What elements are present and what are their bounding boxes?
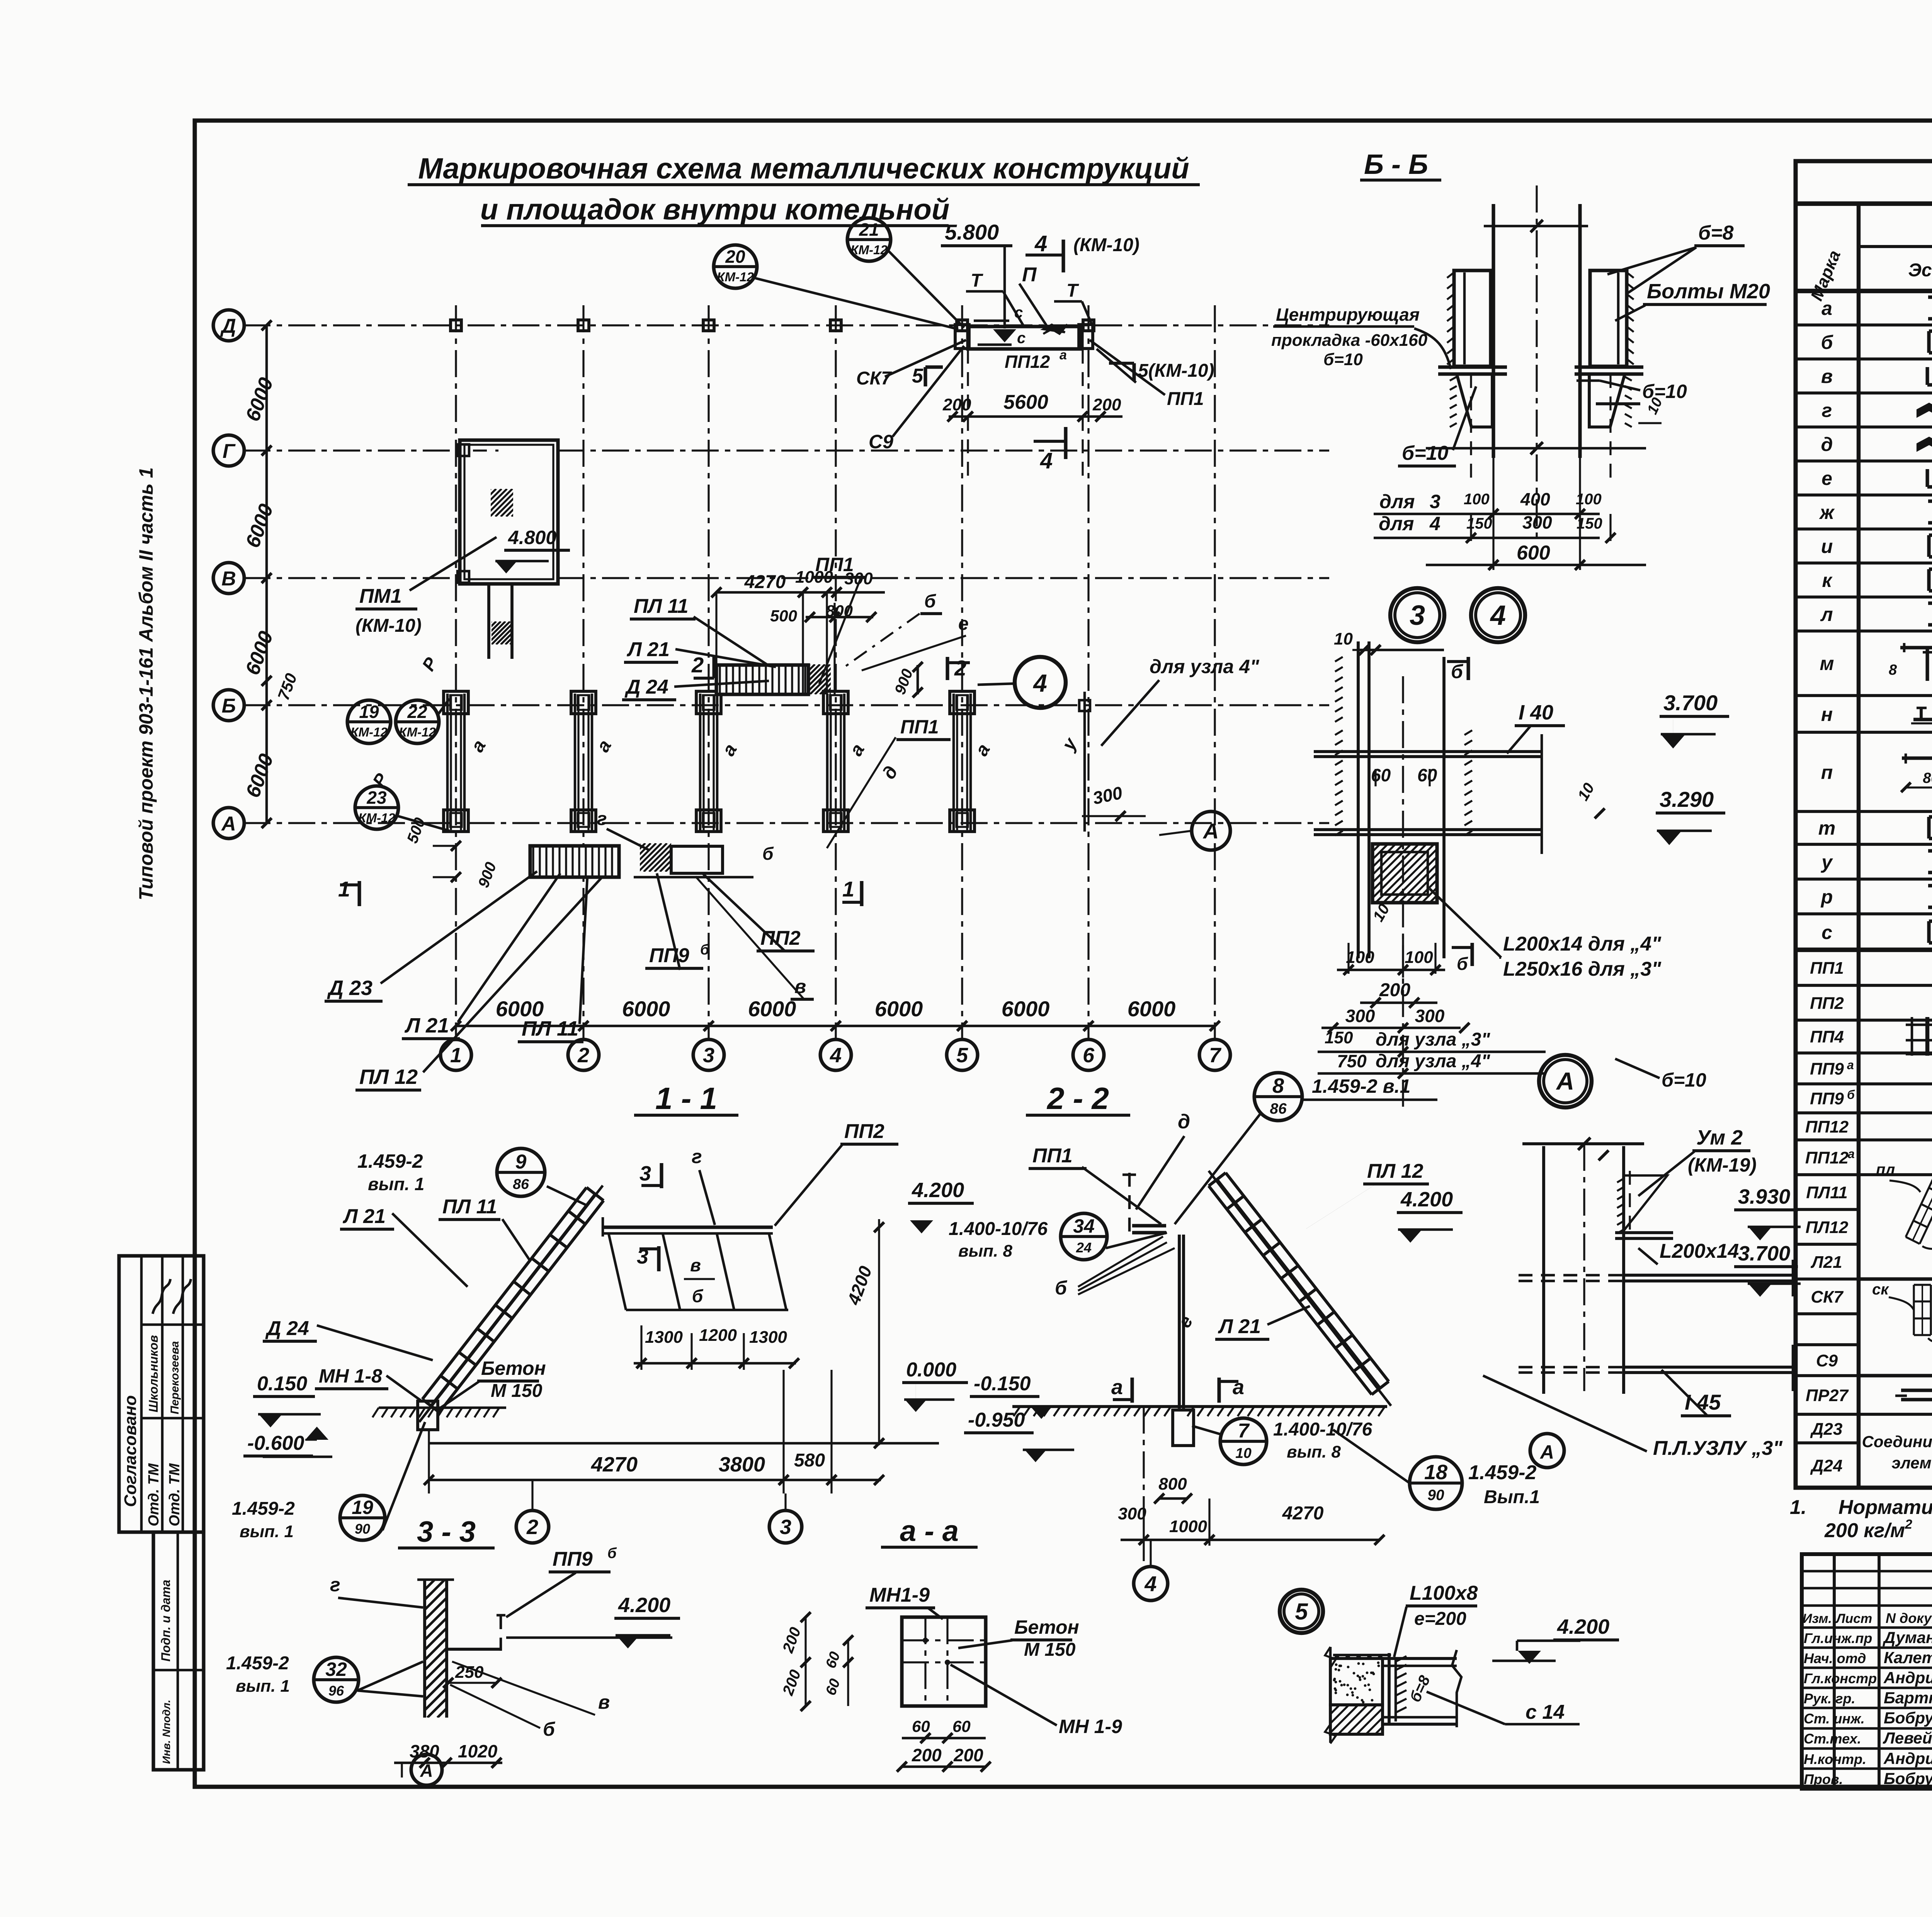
svg-text:г: г [330, 1574, 340, 1596]
svg-text:б: б [1821, 332, 1834, 353]
svg-text:ПП9: ПП9 [1810, 1089, 1844, 1108]
svg-text:3800: 3800 [719, 1453, 765, 1476]
svg-text:А: А [1556, 1067, 1574, 1095]
svg-text:2: 2 [1905, 1517, 1912, 1532]
svg-text:Бетон: Бетон [481, 1357, 546, 1379]
svg-text:3.930: 3.930 [1738, 1185, 1790, 1208]
svg-text:34: 34 [1073, 1215, 1095, 1237]
svg-text:3: 3 [639, 1162, 651, 1185]
svg-text:4: 4 [1429, 513, 1440, 534]
svg-text:300: 300 [1345, 1006, 1375, 1026]
svg-text:(КМ-10): (КМ-10) [1073, 235, 1139, 255]
svg-text:Калетов: Калетов [1884, 1648, 1932, 1667]
svg-text:ПР27: ПР27 [1806, 1386, 1849, 1405]
svg-text:Д: Д [220, 315, 236, 337]
svg-text:Вып.1: Вып.1 [1484, 1487, 1540, 1507]
svg-text:б: б [543, 1718, 556, 1740]
svg-text:1.400-10/76: 1.400-10/76 [949, 1219, 1048, 1239]
svg-text:90: 90 [355, 1521, 370, 1537]
svg-text:60: 60 [1417, 765, 1437, 785]
svg-text:р: р [1820, 886, 1833, 908]
svg-text:22: 22 [407, 702, 427, 722]
svg-text:п: п [1821, 762, 1833, 783]
svg-text:Т: Т [1066, 281, 1079, 301]
svg-text:в: в [1821, 366, 1833, 387]
svg-text:а: а [1111, 1376, 1123, 1399]
svg-text:вып. 1: вып. 1 [236, 1677, 290, 1696]
svg-text:3: 3 [703, 1044, 714, 1067]
svg-text:и: и [1821, 536, 1833, 557]
svg-text:ПЛ 11: ПЛ 11 [442, 1196, 497, 1218]
svg-text:Л 21: Л 21 [626, 638, 670, 661]
svg-text:1020: 1020 [458, 1741, 498, 1761]
svg-text:б=10: б=10 [1323, 350, 1363, 369]
svg-text:Отд. ТМ: Отд. ТМ [146, 1463, 162, 1526]
svg-text:23: 23 [366, 788, 387, 808]
svg-text:90: 90 [1427, 1487, 1444, 1504]
svg-text:Думан: Думан [1883, 1628, 1932, 1647]
svg-text:5600: 5600 [1003, 391, 1048, 413]
svg-text:б: б [1847, 1088, 1855, 1102]
svg-text:с: с [1014, 304, 1023, 321]
svg-text:3.700: 3.700 [1663, 691, 1718, 715]
svg-text:ПЛ11: ПЛ11 [1806, 1183, 1848, 1202]
svg-text:4270: 4270 [591, 1453, 638, 1476]
svg-text:4.200: 4.200 [618, 1594, 670, 1617]
svg-text:1000: 1000 [1169, 1517, 1207, 1536]
svg-text:Болты М20: Болты М20 [1647, 280, 1770, 303]
svg-text:Д23: Д23 [1810, 1420, 1843, 1439]
svg-text:ПП12: ПП12 [1805, 1148, 1849, 1167]
svg-text:в: в [690, 1255, 701, 1275]
svg-text:В: В [221, 568, 236, 590]
svg-text:3.700: 3.700 [1738, 1242, 1790, 1265]
svg-text:вып. 8: вып. 8 [1287, 1442, 1341, 1461]
svg-text:ПП12: ПП12 [1005, 352, 1050, 372]
svg-text:б: б [924, 591, 936, 612]
svg-text:1.459-2: 1.459-2 [232, 1499, 295, 1519]
svg-text:т: т [1818, 817, 1835, 839]
svg-text:3: 3 [780, 1516, 791, 1539]
svg-text:1200: 1200 [699, 1326, 737, 1345]
svg-text:Левейка: Левейка [1883, 1729, 1932, 1747]
svg-text:8: 8 [1272, 1074, 1284, 1097]
svg-text:Д 24: Д 24 [624, 676, 668, 698]
svg-text:8: 8 [1889, 662, 1897, 678]
svg-text:300: 300 [1415, 1006, 1445, 1026]
svg-text:300: 300 [1118, 1504, 1146, 1523]
svg-text:ПП1: ПП1 [1167, 389, 1204, 409]
svg-text:1300: 1300 [645, 1328, 683, 1347]
svg-text:Пров.: Пров. [1804, 1771, 1843, 1787]
svg-text:а: а [1847, 1058, 1854, 1072]
svg-text:L100х8: L100х8 [1410, 1582, 1478, 1604]
svg-text:Барткевич: Барткевич [1884, 1689, 1932, 1707]
svg-text:200: 200 [912, 1745, 942, 1765]
svg-text:ПЛ 12: ПЛ 12 [359, 1065, 418, 1089]
svg-text:у: у [1820, 851, 1833, 873]
svg-text:с: с [1017, 330, 1026, 347]
svg-text:Перекозеева: Перекозеева [168, 1341, 181, 1415]
svg-text:Эскиз: Эскиз [1908, 260, 1932, 281]
svg-text:100: 100 [1346, 948, 1374, 967]
svg-text:3.290: 3.290 [1660, 787, 1714, 811]
svg-text:4.200: 4.200 [1400, 1188, 1453, 1211]
svg-text:а - а: а - а [900, 1515, 959, 1548]
svg-text:Д24: Д24 [1810, 1456, 1843, 1475]
svg-text:60: 60 [1371, 765, 1391, 785]
svg-text:32: 32 [325, 1658, 347, 1680]
svg-text:1.459-2 в.1: 1.459-2 в.1 [1312, 1075, 1410, 1097]
svg-text:2 - 2: 2 - 2 [1046, 1081, 1109, 1116]
svg-text:С9: С9 [869, 431, 893, 452]
svg-text:200: 200 [953, 1745, 983, 1765]
svg-text:3 - 3: 3 - 3 [417, 1516, 476, 1548]
svg-text:7: 7 [1238, 1420, 1250, 1442]
svg-text:Инв. Nподл.: Инв. Nподл. [160, 1700, 172, 1764]
svg-text:5.800: 5.800 [945, 220, 999, 244]
svg-text:г: г [597, 809, 607, 829]
svg-text:24: 24 [1076, 1240, 1092, 1255]
svg-text:ПП9: ПП9 [553, 1548, 593, 1570]
svg-text:100: 100 [1464, 491, 1490, 508]
svg-text:Согласовано: Согласовано [121, 1395, 140, 1507]
svg-text:С9: С9 [1816, 1351, 1838, 1370]
svg-text:для узла „3": для узла „3" [1376, 1029, 1490, 1050]
svg-text:А: А [420, 1761, 433, 1781]
svg-text:А: А [1539, 1441, 1554, 1463]
svg-text:6000: 6000 [875, 997, 923, 1021]
svg-text:200: 200 [1379, 980, 1410, 1000]
svg-text:для узла „4": для узла „4" [1376, 1051, 1490, 1072]
svg-text:800: 800 [1923, 770, 1932, 786]
svg-text:1300: 1300 [749, 1328, 787, 1347]
svg-text:ПМ1: ПМ1 [359, 585, 402, 607]
svg-text:86: 86 [513, 1176, 529, 1192]
svg-text:б: б [607, 1545, 617, 1561]
svg-text:5: 5 [912, 365, 923, 387]
svg-text:300: 300 [1522, 512, 1552, 532]
svg-text:а: а [1821, 298, 1832, 319]
svg-text:Ст. инж.: Ст. инж. [1804, 1711, 1865, 1726]
svg-text:Ст.тех.: Ст.тех. [1804, 1731, 1861, 1747]
svg-text:КМ-12: КМ-12 [350, 725, 388, 740]
svg-text:2: 2 [526, 1516, 538, 1539]
svg-text:ПП1: ПП1 [900, 716, 939, 738]
svg-text:L250х16 для „3": L250х16 для „3" [1503, 958, 1662, 980]
svg-text:2: 2 [577, 1044, 589, 1067]
svg-text:Д 23: Д 23 [327, 976, 372, 1000]
svg-text:500: 500 [770, 607, 797, 625]
svg-text:0.150: 0.150 [257, 1373, 307, 1395]
svg-text:L200х14: L200х14 [1660, 1240, 1739, 1262]
svg-text:750: 750 [1337, 1051, 1367, 1071]
svg-text:400: 400 [1520, 489, 1550, 509]
svg-text:СК7: СК7 [856, 368, 892, 389]
svg-text:-0.150: -0.150 [974, 1373, 1031, 1395]
svg-text:ПП2: ПП2 [844, 1120, 884, 1143]
svg-text:(КМ-19): (КМ-19) [1688, 1154, 1757, 1176]
svg-text:4: 4 [1144, 1572, 1156, 1596]
svg-text:200 кг/м: 200 кг/м [1824, 1519, 1905, 1542]
svg-text:Соединительные: Соединительные [1862, 1432, 1932, 1451]
svg-text:4270: 4270 [744, 572, 786, 592]
svg-text:д: д [1821, 434, 1833, 455]
svg-text:КМ-12: КМ-12 [850, 243, 888, 257]
svg-text:Нормативная кратковременная: Нормативная кратковременная нагрузка на … [1838, 1496, 1932, 1519]
svg-text:Маркировочная схема металлич: Маркировочная схема металлических констр… [418, 152, 1189, 185]
svg-text:н: н [1821, 704, 1833, 725]
svg-text:Л 21: Л 21 [1218, 1315, 1261, 1338]
svg-text:вып. 1: вып. 1 [240, 1522, 294, 1541]
svg-text:1 - 1: 1 - 1 [655, 1081, 717, 1116]
svg-text:600: 600 [1517, 542, 1550, 564]
svg-text:150: 150 [1325, 1028, 1353, 1047]
svg-text:1: 1 [450, 1044, 462, 1067]
svg-text:6000: 6000 [622, 997, 670, 1021]
svg-text:вып. 1: вып. 1 [368, 1174, 424, 1194]
svg-text:I 40: I 40 [1519, 701, 1553, 724]
svg-text:10: 10 [1235, 1445, 1252, 1461]
svg-text:Бобрук: Бобрук [1884, 1709, 1932, 1727]
svg-text:Т: Т [971, 270, 983, 291]
svg-text:а: а [1233, 1376, 1244, 1399]
svg-text:Бетон: Бетон [1014, 1616, 1079, 1638]
svg-text:100: 100 [1405, 948, 1433, 967]
svg-text:19: 19 [359, 702, 379, 722]
svg-text:для узла 4": для узла 4" [1150, 656, 1260, 677]
svg-text:А: А [1202, 819, 1219, 843]
svg-text:580: 580 [794, 1450, 825, 1471]
svg-text:П: П [1022, 264, 1037, 286]
svg-text:ПП1: ПП1 [815, 554, 854, 575]
svg-text:КМ-12: КМ-12 [399, 725, 436, 740]
svg-text:200: 200 [1092, 395, 1121, 414]
svg-text:Рук. гр.: Рук. гр. [1804, 1691, 1855, 1706]
svg-text:б: б [700, 942, 710, 958]
svg-text:-0.600: -0.600 [247, 1432, 304, 1454]
svg-text:1.: 1. [1790, 1496, 1806, 1519]
svg-text:800: 800 [1158, 1475, 1187, 1493]
svg-text:L200х14 для „4": L200х14 для „4" [1503, 933, 1662, 955]
svg-text:2: 2 [691, 653, 704, 677]
svg-text:ПП9: ПП9 [649, 944, 689, 967]
svg-text:б: б [1451, 661, 1464, 682]
svg-text:б: б [1457, 954, 1468, 974]
svg-text:А: А [221, 813, 236, 835]
svg-text:МН 1-8: МН 1-8 [319, 1365, 382, 1387]
svg-text:Изм.: Изм. [1803, 1611, 1832, 1626]
svg-text:18: 18 [1424, 1461, 1447, 1484]
svg-text:Б: Б [222, 695, 236, 717]
svg-text:б=10: б=10 [1662, 1069, 1706, 1091]
svg-text:1: 1 [338, 877, 350, 901]
svg-text:ПП9: ПП9 [1810, 1060, 1844, 1078]
svg-text:с: с [1821, 922, 1832, 943]
svg-text:6: 6 [1083, 1044, 1095, 1067]
svg-text:e=200: e=200 [1414, 1609, 1466, 1629]
svg-text:4: 4 [1034, 231, 1047, 256]
svg-text:Андриевская: Андриевская [1883, 1749, 1932, 1767]
svg-text:1: 1 [842, 877, 854, 901]
svg-text:4: 4 [1032, 669, 1047, 697]
svg-text:прокладка -60х160: прокладка -60х160 [1271, 331, 1428, 350]
svg-text:ПЛ12: ПЛ12 [1806, 1218, 1849, 1237]
svg-text:е: е [958, 614, 969, 634]
svg-text:элементы: элементы [1891, 1454, 1932, 1472]
svg-text:4270: 4270 [1282, 1503, 1324, 1524]
svg-text:е: е [1821, 468, 1832, 489]
svg-text:Типовой проект 903-1-161 Альб: Типовой проект 903-1-161 Альбом II часть… [135, 467, 157, 900]
svg-text:МН1-9: МН1-9 [869, 1584, 930, 1606]
svg-text:ск: ск [1872, 1281, 1889, 1298]
svg-text:2: 2 [954, 656, 966, 680]
svg-text:КМ-12: КМ-12 [358, 811, 395, 825]
svg-text:б=10: б=10 [1402, 442, 1448, 464]
svg-text:м: м [1820, 653, 1834, 674]
svg-text:для: для [1379, 491, 1415, 512]
svg-text:4: 4 [1490, 600, 1506, 631]
svg-text:Гл.констр: Гл.констр [1804, 1670, 1877, 1686]
svg-text:Л21: Л21 [1810, 1253, 1842, 1272]
svg-text:Л 21: Л 21 [404, 1014, 449, 1037]
svg-text:Ум 2: Ум 2 [1696, 1126, 1743, 1149]
svg-text:19: 19 [352, 1497, 373, 1518]
svg-text:ж: ж [1819, 502, 1835, 523]
svg-text:20: 20 [725, 247, 745, 267]
svg-text:г: г [1822, 400, 1832, 421]
svg-text:л: л [1820, 604, 1833, 625]
svg-text:Отд. ТМ: Отд. ТМ [167, 1463, 183, 1526]
svg-text:9: 9 [515, 1151, 527, 1173]
svg-text:вып. 8: вып. 8 [958, 1242, 1012, 1260]
svg-text:к: к [1822, 570, 1833, 591]
svg-text:Б - Б: Б - Б [1364, 149, 1428, 180]
svg-text:МН 1-9: МН 1-9 [1059, 1716, 1122, 1737]
svg-text:Центрирующая: Центрирующая [1276, 304, 1420, 325]
svg-text:1.459-2: 1.459-2 [226, 1653, 289, 1674]
svg-text:6000: 6000 [1128, 997, 1176, 1021]
svg-text:б: б [1055, 1277, 1068, 1299]
svg-text:ПЛ 12: ПЛ 12 [1367, 1160, 1423, 1182]
svg-text:4: 4 [830, 1044, 842, 1067]
svg-text:3: 3 [1430, 491, 1440, 512]
svg-text:5(КМ-10): 5(КМ-10) [1138, 361, 1214, 381]
svg-text:в: в [598, 1691, 610, 1713]
svg-text:4.200: 4.200 [1557, 1615, 1609, 1638]
svg-text:Лист: Лист [1835, 1611, 1872, 1626]
svg-text:Л 21: Л 21 [342, 1205, 386, 1228]
svg-text:1.400-10/76: 1.400-10/76 [1273, 1419, 1372, 1440]
svg-text:с 14: с 14 [1526, 1701, 1565, 1723]
svg-text:ПП12: ПП12 [1805, 1118, 1849, 1136]
svg-text:3: 3 [1410, 600, 1425, 631]
svg-text:Андриевской: Андриевской [1883, 1669, 1932, 1687]
svg-text:ПП4: ПП4 [1810, 1027, 1844, 1046]
svg-text:а: а [1848, 1147, 1855, 1161]
svg-text:М 150: М 150 [1024, 1640, 1076, 1660]
svg-text:д: д [1178, 1111, 1190, 1133]
svg-text:7: 7 [1209, 1044, 1222, 1067]
svg-text:КМ-12: КМ-12 [717, 270, 754, 284]
svg-text:ПЛ 11: ПЛ 11 [634, 595, 689, 617]
svg-text:Г: Г [223, 440, 236, 463]
svg-text:10: 10 [1334, 629, 1353, 648]
svg-text:ПП2: ПП2 [1810, 994, 1844, 1013]
svg-text:Н.контр.: Н.контр. [1804, 1751, 1866, 1767]
svg-text:5: 5 [1295, 1599, 1308, 1624]
svg-text:Д 24: Д 24 [265, 1317, 309, 1340]
svg-text:60: 60 [912, 1717, 930, 1735]
svg-text:для: для [1379, 513, 1414, 534]
svg-text:6000: 6000 [748, 997, 796, 1021]
svg-text:4.800: 4.800 [508, 527, 556, 548]
svg-text:Гл.инж.пр: Гл.инж.пр [1804, 1630, 1872, 1646]
svg-text:пл: пл [1876, 1161, 1895, 1178]
svg-text:Школьников: Школьников [146, 1335, 160, 1412]
svg-text:б: б [692, 1286, 704, 1306]
svg-text:60: 60 [952, 1717, 971, 1735]
svg-text:а: а [1060, 348, 1067, 362]
svg-text:21: 21 [859, 219, 879, 240]
svg-text:СК7: СК7 [1811, 1288, 1844, 1306]
svg-text:б=8: б=8 [1698, 222, 1734, 244]
svg-text:5: 5 [956, 1044, 968, 1067]
svg-text:86: 86 [1270, 1101, 1287, 1117]
svg-text:Бобрук: Бобрук [1884, 1769, 1932, 1788]
svg-text:ПП1: ПП1 [1032, 1145, 1073, 1167]
svg-text:6000: 6000 [1002, 997, 1050, 1021]
svg-text:Нач. отд: Нач. отд [1804, 1650, 1866, 1666]
svg-text:М 150: М 150 [491, 1381, 543, 1401]
svg-text:0.000: 0.000 [906, 1359, 956, 1381]
svg-text:б: б [762, 844, 774, 864]
svg-text:96: 96 [328, 1683, 344, 1699]
svg-text:4: 4 [1040, 448, 1053, 473]
svg-text:4.200: 4.200 [912, 1179, 964, 1202]
svg-text:ПП1: ПП1 [1810, 959, 1844, 978]
svg-text:-0.950: -0.950 [968, 1409, 1025, 1431]
svg-text:ПЛ 11: ПЛ 11 [522, 1017, 578, 1040]
svg-text:1.459-2: 1.459-2 [357, 1150, 423, 1172]
svg-text:г: г [692, 1146, 702, 1167]
svg-text:П.Л.УЗЛУ „3": П.Л.УЗЛУ „3" [1653, 1437, 1783, 1459]
svg-text:1.459-2: 1.459-2 [1468, 1461, 1536, 1484]
svg-text:N докум.: N докум. [1886, 1610, 1932, 1626]
svg-text:(КМ-10): (КМ-10) [355, 616, 422, 636]
svg-text:Подп. и дата: Подп. и дата [159, 1580, 173, 1662]
